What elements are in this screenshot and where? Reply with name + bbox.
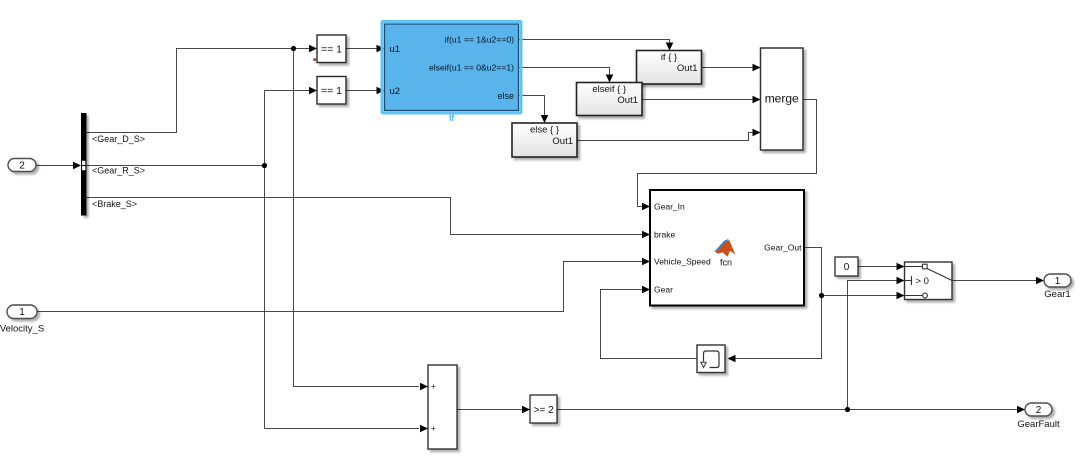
- svg-text:0: 0: [844, 262, 850, 273]
- svg-text:Out1: Out1: [552, 136, 573, 147]
- svg-text:if(u1 == 1&u2==0): if(u1 == 1&u2==0): [445, 35, 514, 45]
- svg-text:Gear_Out: Gear_Out: [764, 243, 802, 253]
- svg-text:Out1: Out1: [617, 95, 638, 106]
- svg-text:== 1: == 1: [321, 43, 342, 55]
- svg-text:2: 2: [1036, 405, 1042, 416]
- svg-text:Gear1: Gear1: [1044, 289, 1070, 300]
- svg-text:GearFault: GearFault: [1017, 419, 1060, 430]
- svg-text:Velocity_S: Velocity_S: [0, 324, 44, 335]
- svg-text:+: +: [431, 382, 436, 391]
- svg-text:fcn: fcn: [720, 258, 732, 268]
- svg-text:== 1: == 1: [321, 85, 342, 97]
- svg-text:if { }: if { }: [661, 52, 677, 63]
- svg-text:Out1: Out1: [677, 63, 698, 74]
- svg-text:elseif { }: elseif { }: [592, 84, 626, 95]
- svg-text:merge: merge: [765, 92, 799, 106]
- svg-text:Gear: Gear: [654, 285, 673, 295]
- svg-text:1: 1: [1055, 276, 1061, 287]
- svg-text:> 0: > 0: [916, 276, 929, 287]
- svg-text:<Gear_R_S>: <Gear_R_S>: [92, 166, 145, 176]
- svg-text:If: If: [449, 113, 455, 124]
- svg-text:u2: u2: [390, 86, 401, 97]
- svg-text:else: else: [497, 91, 514, 101]
- svg-text:elseif(u1 == 0&u2==1): elseif(u1 == 0&u2==1): [429, 63, 514, 73]
- svg-text:brake: brake: [654, 230, 676, 240]
- svg-text:<Brake_S>: <Brake_S>: [92, 199, 137, 209]
- svg-text:2: 2: [19, 160, 25, 171]
- svg-text:1: 1: [19, 307, 25, 318]
- svg-text:+: +: [431, 424, 436, 433]
- svg-text:<Gear_D_S>: <Gear_D_S>: [92, 134, 145, 144]
- svg-text:Gear_In: Gear_In: [654, 202, 685, 212]
- svg-text:>= 2: >= 2: [534, 405, 554, 416]
- svg-text:else { }: else { }: [530, 125, 559, 136]
- svg-text:Vehicle_Speed: Vehicle_Speed: [654, 257, 711, 267]
- svg-text:u1: u1: [390, 44, 401, 55]
